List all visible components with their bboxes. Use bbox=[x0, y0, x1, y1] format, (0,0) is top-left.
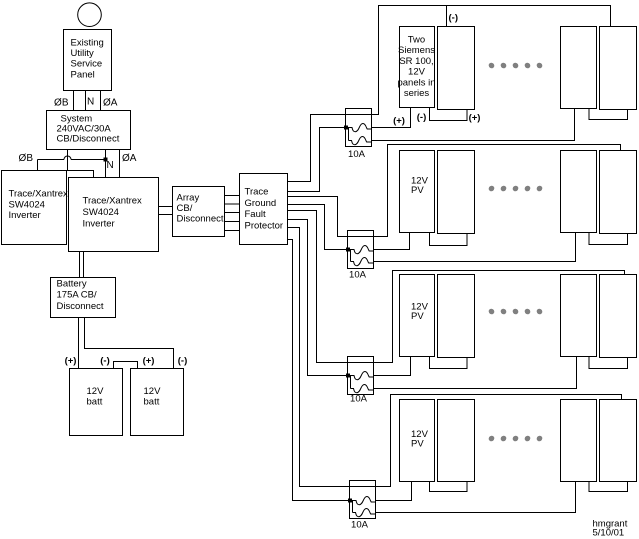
svg-text:(-): (-) bbox=[449, 13, 459, 24]
svg-text:(-): (-) bbox=[417, 112, 427, 123]
panel P4B bbox=[438, 400, 475, 482]
wire fuse F3 to panel P3C positive bbox=[374, 357, 577, 389]
svg-text:CB/Disconnect: CB/Disconnect bbox=[57, 133, 120, 144]
wire fuse F2 to panel P2A positive bbox=[374, 233, 410, 250]
inverter U1 Trace/Xantrex SW4024 bbox=[2, 171, 67, 245]
utility meter circle bbox=[78, 3, 102, 27]
wire battery positive cable bbox=[79, 252, 81, 278]
wire string 4 positive: GFP to fuse F4 bbox=[288, 240, 350, 501]
svg-text:Panel: Panel bbox=[71, 69, 95, 80]
svg-text:N: N bbox=[87, 97, 94, 108]
panel P1D bbox=[600, 27, 637, 110]
svg-text:12V: 12V bbox=[144, 386, 162, 397]
svg-text:12V: 12V bbox=[87, 386, 105, 397]
fuse F1 element link bbox=[348, 128, 350, 141]
svg-text:N: N bbox=[107, 160, 114, 171]
panel P4D bbox=[600, 400, 637, 482]
ellipsis dots string 2 bbox=[489, 186, 495, 192]
trace ground fault protector box bbox=[240, 174, 288, 245]
panel P2C bbox=[561, 151, 597, 233]
wire array CB to GFP 3 bbox=[225, 212, 240, 214]
wire series link P2C to P2D bbox=[589, 233, 628, 245]
wire battery CB to battery B1 positive bbox=[78, 318, 80, 369]
wire fuse F4 to panel P4A positive bbox=[376, 482, 412, 501]
wire fuse F3 to panel P3A positive bbox=[374, 357, 411, 376]
panel P2D bbox=[600, 151, 637, 234]
svg-text:10A: 10A bbox=[349, 270, 367, 281]
svg-text:Ground: Ground bbox=[245, 198, 277, 209]
wire inverter U2 to array CB 2 bbox=[159, 214, 173, 216]
fuse F2 bottom squiggle element bbox=[351, 258, 374, 266]
svg-text:10A: 10A bbox=[348, 149, 366, 160]
wire series link P4C to P4D bbox=[589, 482, 628, 492]
svg-text:Disconnect: Disconnect bbox=[177, 214, 224, 225]
wire string 2 negative: GFP to frame bus bbox=[288, 145, 621, 237]
array CB/disconnect box bbox=[173, 187, 225, 237]
fuse F3 input junction dot bbox=[346, 374, 350, 378]
fuse F2 element link bbox=[350, 250, 352, 262]
wire string 1 negative: GFP to frame bus bbox=[288, 6, 611, 182]
svg-text:series: series bbox=[404, 88, 430, 99]
svg-text:PV: PV bbox=[411, 311, 424, 322]
wire neutral vertical to inverter U2 bbox=[105, 150, 107, 178]
ellipsis dots string 4 bbox=[489, 436, 495, 442]
fuse F4 10A breaker box bbox=[350, 481, 376, 519]
svg-text:ØB: ØB bbox=[54, 98, 69, 109]
svg-text:(+): (+) bbox=[469, 112, 481, 123]
wire string 1 positive: GFP to fuse F1 bbox=[288, 128, 346, 192]
wire fuse F1 to panel P1C positive bbox=[372, 109, 575, 141]
svg-text:Protector: Protector bbox=[245, 220, 284, 231]
svg-text:ØB: ØB bbox=[19, 153, 34, 164]
svg-text:ØA: ØA bbox=[103, 98, 118, 109]
panel P3B bbox=[438, 275, 475, 358]
svg-text:SR 100,: SR 100, bbox=[399, 56, 433, 67]
wire string 4 negative: GFP to frame bus bbox=[288, 228, 622, 487]
svg-text:panels in: panels in bbox=[397, 77, 435, 88]
svg-text:PV: PV bbox=[411, 438, 424, 449]
battery B1 12V bbox=[70, 369, 123, 436]
panel P2A 12V PV bbox=[400, 151, 435, 233]
fuse F3 top squiggle element bbox=[348, 372, 374, 380]
svg-text:Service: Service bbox=[71, 59, 103, 70]
wire phase A to inverter U2 bbox=[119, 150, 121, 178]
svg-text:CB/: CB/ bbox=[177, 203, 193, 214]
wire phase B service drop bbox=[73, 91, 75, 111]
svg-text:Inverter: Inverter bbox=[83, 219, 115, 230]
fuse F2 top squiggle element bbox=[348, 246, 374, 254]
wire neutral branch to inverter U1 bbox=[38, 159, 65, 161]
fuse F4 element link bbox=[352, 501, 354, 513]
inverter U2 Trace/Xantrex SW4024 bbox=[69, 178, 159, 252]
fuse F3 element link bbox=[350, 376, 352, 389]
wire neutral branch west segment bbox=[71, 159, 104, 161]
fuse F4 input junction dot bbox=[348, 499, 352, 503]
svg-text:Inverter: Inverter bbox=[9, 210, 41, 221]
panel P4C bbox=[561, 400, 597, 482]
svg-text:Trace/Xantrex: Trace/Xantrex bbox=[9, 189, 69, 200]
svg-text:PV: PV bbox=[411, 185, 424, 196]
fuse F1 input junction dot bbox=[344, 126, 348, 130]
wire string 2 positive: GFP to fuse F2 bbox=[288, 205, 348, 250]
fuse F3 bottom squiggle element bbox=[351, 385, 374, 393]
wire string 3 positive: GFP to fuse F3 bbox=[288, 220, 348, 376]
system 240VAC/30A CB/disconnect box bbox=[47, 111, 131, 150]
wire phase B to inverters bbox=[67, 150, 69, 171]
wire inverter U2 to array CB 1 bbox=[159, 206, 173, 208]
fuse F1 top squiggle element bbox=[346, 124, 372, 132]
panel P3A 12V PV bbox=[400, 275, 435, 357]
svg-text:(+): (+) bbox=[393, 116, 405, 127]
svg-text:(-): (-) bbox=[178, 356, 188, 367]
svg-text:SW4024: SW4024 bbox=[9, 199, 45, 210]
existing utility service panel box bbox=[64, 30, 112, 91]
svg-text:Array: Array bbox=[177, 193, 200, 204]
svg-text:batt: batt bbox=[87, 397, 103, 408]
panel P2B bbox=[438, 151, 475, 234]
svg-text:Two: Two bbox=[408, 35, 425, 46]
wire series link P3C to P3D bbox=[589, 357, 628, 369]
panel P1B bbox=[438, 27, 475, 110]
wire array CB to GFP 4 bbox=[225, 221, 240, 223]
svg-text:(+): (+) bbox=[65, 356, 77, 367]
wire series link P1A to P1B bbox=[430, 108, 468, 121]
svg-text:ØA: ØA bbox=[122, 153, 137, 164]
svg-text:12V: 12V bbox=[408, 67, 426, 78]
fuse F3 10A breaker box bbox=[348, 357, 374, 395]
fuse F4 top squiggle element bbox=[350, 497, 376, 505]
wire fuse F4 to panel P4C positive bbox=[376, 482, 576, 513]
wire battery negative cable bbox=[83, 252, 85, 278]
ellipsis dots string 3 bbox=[489, 309, 495, 315]
svg-text:(+): (+) bbox=[143, 356, 155, 367]
wire array CB to GFP 5 bbox=[225, 230, 240, 232]
panel P3D bbox=[600, 275, 637, 358]
svg-text:Siemens: Siemens bbox=[398, 45, 435, 56]
svg-text:batt: batt bbox=[144, 397, 160, 408]
svg-text:Trace: Trace bbox=[245, 187, 269, 198]
svg-text:5/10/01: 5/10/01 bbox=[593, 528, 625, 539]
wire phase B top bus to inverter U2 bbox=[67, 171, 94, 178]
svg-text:Existing: Existing bbox=[71, 38, 104, 49]
svg-text:Fault: Fault bbox=[245, 209, 266, 220]
svg-text:(-): (-) bbox=[100, 356, 110, 367]
ellipsis dots string 1 bbox=[489, 63, 495, 69]
svg-text:10A: 10A bbox=[350, 394, 368, 405]
svg-text:Trace/Xantrex: Trace/Xantrex bbox=[83, 196, 143, 207]
wire neutral service drop bbox=[85, 91, 87, 111]
junction dot neutral node bbox=[104, 158, 108, 162]
wire fuse F1 to panel P1A positive bbox=[372, 108, 411, 128]
panel P4A 12V PV bbox=[400, 400, 435, 482]
svg-text:175A CB/: 175A CB/ bbox=[57, 290, 97, 301]
panel P1A Two Siemens SR100 12V panels in series bbox=[400, 27, 435, 108]
fuse F2 input junction dot bbox=[346, 248, 350, 252]
wire array CB to GFP 1 bbox=[225, 195, 240, 197]
panel P3C bbox=[561, 275, 597, 357]
svg-text:10A: 10A bbox=[351, 520, 369, 531]
wire fuse F2 to panel P2C positive bbox=[374, 233, 576, 262]
fuse F2 10A breaker box bbox=[348, 231, 374, 269]
wire series link P2A to P2B bbox=[430, 233, 468, 246]
svg-text:Disconnect: Disconnect bbox=[57, 301, 104, 312]
svg-text:Battery: Battery bbox=[57, 279, 87, 290]
svg-text:SW4024: SW4024 bbox=[83, 207, 119, 218]
wire string 3 negative: GFP to frame bus bbox=[288, 211, 625, 363]
panel P1C bbox=[561, 27, 597, 109]
battery 175A CB/disconnect box bbox=[51, 278, 116, 318]
fuse F1 bottom squiggle element bbox=[349, 137, 372, 145]
fuse F1 10A breaker box bbox=[346, 109, 372, 147]
wire series link P3A to P3B bbox=[430, 357, 468, 369]
wire battery CB to battery B2 negative bbox=[85, 318, 174, 369]
wire phase A service drop bbox=[100, 91, 102, 111]
battery B2 12V bbox=[131, 369, 184, 436]
svg-text:Utility: Utility bbox=[71, 48, 94, 59]
fuse F4 bottom squiggle element bbox=[353, 509, 376, 517]
wire array CB to GFP 2 bbox=[225, 203, 240, 205]
wire hop over phase B bbox=[64, 156, 71, 160]
wire series link P4A to P4B bbox=[430, 482, 468, 492]
wire string 1 negative drop to panel P1B bbox=[446, 6, 448, 27]
wire series link battery B1 to B2 bbox=[114, 362, 138, 369]
wire series link P1C to P1D bbox=[589, 109, 628, 120]
